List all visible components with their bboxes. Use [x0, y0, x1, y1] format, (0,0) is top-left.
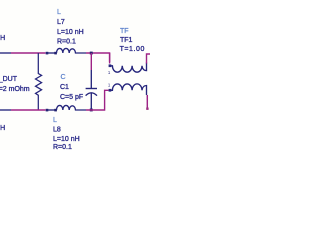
- wire: TF secondary right magenta down to endpoint: [146, 95, 148, 110]
- wire: bottom rail left navy stub: [0, 109, 11, 111]
- svg-text:L: L: [57, 9, 61, 16]
- svg-text:L=10 nH: L=10 nH: [0, 35, 5, 42]
- wire: bottom rail magenta segment: [11, 109, 46, 111]
- node: C1 bottom junction dot: [90, 109, 93, 112]
- wire: top rail navy segment between dots: [46, 52, 57, 54]
- node: TF secondary left pin dot: [109, 89, 112, 92]
- svg-text:R=2 mOhm: R=2 mOhm: [0, 86, 30, 93]
- svg-text:R=0.1: R=0.1: [53, 144, 72, 150]
- svg-text:C: C: [61, 74, 66, 81]
- svg-text:C=5 pF: C=5 pF: [60, 94, 83, 101]
- node: L8 left pin dot: [54, 109, 57, 112]
- svg-text:L7: L7: [57, 19, 65, 26]
- inductor L7: [57, 48, 87, 53]
- wire: top rail magenta to C1 junction and TF corner: [86, 53, 110, 62]
- svg-text:L=10 nH: L=10 nH: [57, 29, 84, 36]
- node: bottom rail dot B: [46, 109, 49, 112]
- transformer TF1 primary winding: [110, 63, 147, 73]
- svg-text:1: 1: [108, 83, 111, 88]
- node: L7 left pin dot: [54, 52, 57, 55]
- transformer TF1 secondary winding: [110, 84, 147, 95]
- node: wire end dot bottom right: [146, 108, 148, 110]
- wire: TF primary left pin wire from top rail: [109, 53, 111, 64]
- wire: bottom rail navy segment: [46, 109, 57, 111]
- svg-text:L: L: [53, 117, 57, 124]
- svg-text:TF1: TF1: [120, 37, 133, 44]
- svg-text:C1: C1: [60, 84, 69, 91]
- capacitor C1: [90, 53, 92, 70]
- wire: top rail left navy stub (off-canvas component lead): [0, 52, 11, 54]
- wire: TF primary right magenta exit to right edge: [147, 54, 151, 64]
- svg-text:L=10 nH: L=10 nH: [0, 125, 5, 132]
- node: TF primary left pin dot: [109, 64, 112, 67]
- svg-text:R=0.1: R=0.1: [57, 39, 76, 46]
- resistor R_DUT: [36, 53, 42, 110]
- inductor L8: [57, 105, 87, 110]
- svg-text:L=10 nH: L=10 nH: [53, 136, 80, 143]
- wire: bottom rail magenta to corner up to TF secondary: [86, 90, 109, 110]
- svg-text:TF: TF: [120, 28, 129, 35]
- svg-text:L8: L8: [53, 127, 61, 134]
- node: top rail dot A: [46, 52, 49, 55]
- svg-text:R_DUT: R_DUT: [0, 76, 18, 83]
- wire: top rail magenta segment: [11, 52, 46, 54]
- svg-text:T=1.00: T=1.00: [120, 46, 145, 53]
- node: C1 top junction dot: [90, 52, 93, 55]
- svg-text:1: 1: [108, 70, 111, 75]
